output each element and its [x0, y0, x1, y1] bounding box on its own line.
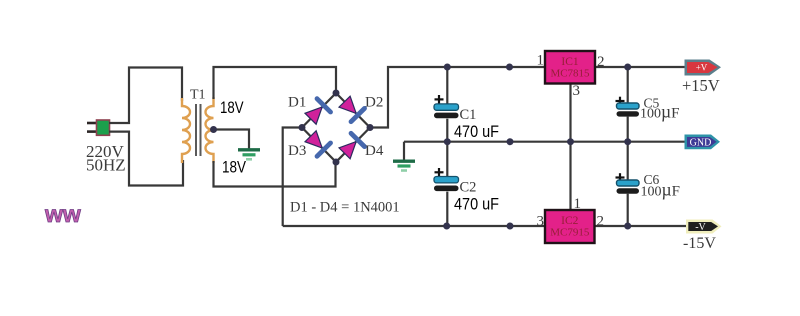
svg-text:T1: T1: [190, 88, 206, 103]
capacitor C1: [434, 67, 459, 142]
svg-text:D3: D3: [288, 143, 306, 159]
svg-text:D2: D2: [365, 95, 383, 111]
svg-text:50HZ: 50HZ: [86, 156, 126, 175]
node bridge top: [333, 90, 340, 97]
primary winding: [182, 98, 190, 163]
svg-text:+15V: +15V: [682, 76, 720, 95]
node bridge left: [299, 124, 306, 131]
diode D1: [304, 99, 331, 126]
capacitor C2: [434, 142, 459, 226]
wire plug to primary loop: [109, 68, 182, 124]
svg-text:MC7915: MC7915: [550, 227, 590, 239]
svg-text:D4: D4: [365, 143, 384, 159]
svg-text:IC2: IC2: [561, 215, 579, 227]
diode D4: [338, 133, 365, 160]
node gnd C5C6: [624, 138, 631, 145]
wire center tap to ground: [214, 130, 250, 150]
wire bridge left vertex down to -V rail: [283, 128, 302, 227]
wire secondary bottom to bridge bottom: [214, 161, 336, 187]
svg-text:2: 2: [597, 54, 605, 70]
svg-text:1: 1: [537, 53, 545, 69]
wire -V rail right: [595, 225, 687, 227]
node gnd mid: [507, 138, 514, 145]
connector -V: [686, 220, 722, 234]
node +V C5: [624, 64, 631, 71]
svg-text:470 uF: 470 uF: [454, 195, 499, 214]
capacitor C6: [616, 142, 640, 226]
wire secondary top to bridge top: [214, 67, 337, 99]
svg-text:+V: +V: [696, 63, 708, 73]
svg-text:2: 2: [597, 214, 605, 230]
svg-text:C1: C1: [460, 107, 477, 123]
node -V mid: [507, 223, 514, 230]
svg-text:1: 1: [574, 196, 582, 212]
wire GND rail: [404, 141, 685, 143]
connector GND: [685, 135, 721, 150]
diode D3: [304, 130, 331, 157]
svg-text:3: 3: [573, 83, 581, 99]
transformer T1: [182, 97, 214, 163]
wire plug bottom to primary bottom: [109, 132, 183, 186]
diode D2: [338, 95, 365, 122]
svg-text:D1 - D4 = 1N4001: D1 - D4 = 1N4001: [290, 200, 400, 216]
capacitor C5: [616, 67, 640, 142]
IC2 MC7915: [545, 210, 595, 243]
secondary winding: [206, 97, 214, 163]
wire bridge right vertex up to + rail: [370, 67, 545, 128]
wire -V rail left: [283, 225, 545, 227]
svg-text:18V: 18V: [222, 159, 246, 177]
node gnd C1C2: [444, 138, 451, 145]
svg-text:MC7815: MC7815: [550, 68, 590, 80]
svg-text:ww: ww: [44, 201, 81, 227]
plug P1 (220V mains): [87, 120, 110, 135]
core: [195, 104, 197, 156]
node bridge right: [367, 124, 374, 131]
node -V C2: [443, 223, 450, 230]
svg-text:-15V: -15V: [683, 235, 716, 252]
node center tap: [210, 126, 217, 133]
node -V C6: [624, 223, 631, 230]
svg-text:-V: -V: [695, 222, 706, 233]
svg-text:3: 3: [537, 214, 545, 230]
IC1 MC7815: [545, 51, 595, 84]
svg-text:GND: GND: [690, 137, 712, 148]
node top rail mid: [506, 64, 513, 71]
svg-text:C2: C2: [460, 180, 477, 196]
ground (main, below bridge): [393, 142, 415, 171]
node gnd regulators: [567, 138, 574, 145]
svg-text:18V: 18V: [220, 99, 244, 117]
wire +V out of IC1: [595, 66, 685, 68]
ground (center tap): [238, 150, 260, 160]
svg-text:D1: D1: [288, 95, 306, 111]
connector +V: [685, 60, 722, 76]
wire IC1 pin3 to IC2 pin1: [569, 84, 571, 211]
node top rail C1: [444, 64, 451, 71]
node bridge bottom: [333, 159, 340, 166]
svg-text:IC1: IC1: [561, 56, 579, 68]
svg-text:470 uF: 470 uF: [454, 122, 499, 141]
bridge wires (diamond): [302, 93, 370, 162]
